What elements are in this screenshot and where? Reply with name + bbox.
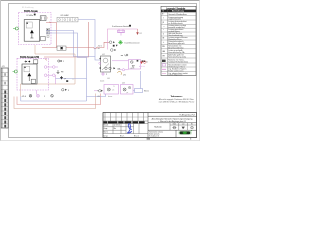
svg-text:Bezeichnung: Bezeichnung	[172, 11, 185, 13]
text column lines	[168, 13, 188, 77]
svg-text:von: von	[182, 124, 185, 126]
svg-text:Durchflussmesser: Durchflussmesser	[125, 41, 140, 44]
bold header band	[103, 121, 144, 123]
red tick at B1.B2 top right	[45, 59, 47, 61]
connector P2 glyph	[118, 29, 125, 36]
small box below B1.B2 body	[31, 79, 35, 83]
red bottom bus	[17, 94, 101, 105]
dashed enclosure B1.B1	[19, 13, 52, 45]
symbols top of B1.B2	[25, 60, 38, 64]
svg-text:Sensorik Wandaufbau: Sensorik Wandaufbau	[168, 13, 187, 16]
pin marks right edge B1.B1	[46, 22, 50, 38]
valve body B1.B2	[22, 64, 37, 84]
svg-text:bn ws: bn ws	[108, 96, 112, 98]
title block	[103, 113, 197, 138]
terminal block X2 top	[57, 15, 78, 22]
svg-text:Norm: Norm	[104, 130, 109, 133]
revision grid columns	[103, 113, 148, 122]
fold mark bottom	[190, 138, 192, 140]
wire label cluster below B1.B2	[22, 94, 54, 98]
svg-text:1: 1	[114, 86, 115, 88]
bottom sensor box X6b	[121, 83, 134, 95]
svg-text:pz: pz	[127, 92, 129, 94]
company logo	[178, 130, 192, 135]
svg-text:-B4: -B4	[122, 83, 125, 85]
pink trace to P2	[108, 29, 138, 50]
svg-text:-X6: -X6	[107, 78, 110, 80]
svg-text:Kuehlwasser Austritt: Kuehlwasser Austritt	[112, 25, 130, 28]
svg-text:extern abgesetzt: extern abgesetzt	[168, 73, 182, 76]
blue bottom bus	[21, 97, 87, 102]
svg-text:Farbe violett extra: Farbe violett extra	[168, 69, 184, 72]
svg-text:Maßstab: Maßstab	[154, 125, 161, 128]
svg-text:gn: gn	[64, 78, 66, 80]
wire blue B1.B1 out A	[46, 31, 101, 61]
terminal strip X1 (left margin)	[1, 66, 8, 128]
svg-text:-X1:4: -X1:4	[22, 96, 27, 98]
svg-text:Anschlussklemme: Anschlussklemme	[168, 46, 183, 49]
signature scribble	[127, 124, 132, 134]
symbols left of X6a	[97, 90, 103, 98]
svg-text:2x1,5: 2x1,5	[100, 81, 104, 83]
red arrow end	[140, 61, 146, 65]
green plug at B1.B2	[13, 70, 18, 73]
svg-text:Gepr.: Gepr.	[104, 127, 109, 130]
svg-text:+ Übersicht der Abgänge plan: + Übersicht der Abgänge plan 01	[158, 120, 186, 123]
diode arrow	[30, 30, 34, 33]
tolerance note block	[159, 96, 195, 103]
svg-text:2: 2	[106, 74, 107, 76]
svg-text:Bearb.: Bearb.	[104, 124, 110, 127]
wire red X2 drop	[44, 22, 89, 57]
small relay box top-right of B1.B1	[40, 16, 48, 21]
svg-text:-W6: -W6	[97, 96, 100, 98]
svg-text:B1 Kuehlung: B1 Kuehlung	[22, 7, 33, 9]
svg-text:K2: K2	[140, 33, 142, 35]
svg-text:-R1: -R1	[123, 74, 126, 76]
riser magenta short	[36, 90, 38, 94]
wire blue B1.B1 out B	[46, 33, 87, 101]
symbols left of X6	[62, 89, 69, 92]
svg-text:1: 1	[63, 61, 64, 63]
header row dark	[161, 10, 196, 13]
svg-text:Mu: Mu	[114, 128, 116, 130]
svg-text:-W4: -W4	[117, 68, 120, 70]
dark symbol pair mid	[58, 60, 64, 63]
magenta wires to X5	[112, 60, 129, 62]
small box below B1.B1 body	[41, 36, 46, 40]
magenta plug circles right of B1.B2	[44, 66, 58, 77]
svg-text:Kennzeichnung 2fb: Kennzeichnung 2fb	[168, 52, 184, 54]
bottom centre tick	[147, 138, 150, 139]
svg-text:—: —	[163, 26, 165, 28]
svg-text:Schaltplan 01: Schaltplan 01	[149, 135, 159, 138]
magenta wire to center	[54, 75, 56, 84]
wire blue X2 right	[78, 20, 95, 57]
green plug at B1.B1	[13, 27, 18, 30]
svg-text:3: 3	[68, 90, 69, 92]
svg-text:12.03.14: 12.03.14	[114, 125, 121, 127]
svg-text:B1.B1 Airgate: B1.B1 Airgate	[24, 10, 39, 13]
svg-text:Urspr.: Urspr.	[104, 134, 109, 137]
lower-left cells	[103, 124, 148, 134]
flow sensor row	[98, 40, 140, 51]
page outer edge	[0, 0, 200, 141]
svg-text:funktion Reihenklemme: funktion Reihenklemme	[168, 61, 188, 64]
svg-text:K1: K1	[146, 62, 148, 64]
center device U2	[99, 54, 111, 72]
svg-text:Toleranzen:: Toleranzen:	[170, 96, 182, 98]
green star	[118, 40, 123, 45]
symbols below U2	[102, 67, 126, 76]
svg-text:1: 1	[47, 17, 48, 19]
dashed enclosure B1.B2	[17, 58, 49, 90]
bottom sensor box X6a	[100, 78, 119, 94]
blue device right	[133, 71, 149, 93]
wire red B1.B1 to bus	[46, 23, 57, 48]
valve body B1.B1	[24, 20, 40, 42]
svg-text:Ebene: Ebene	[144, 91, 149, 93]
tan bottom bus	[14, 94, 96, 109]
svg-text:|‖: |‖	[163, 22, 164, 24]
drawing frame	[9, 4, 197, 138]
right side divider	[147, 113, 149, 138]
magenta wire into X6a	[94, 90, 99, 92]
ground symbol mid	[57, 70, 65, 74]
inline device on red wire	[57, 46, 66, 50]
blue bottom link	[87, 94, 106, 97]
plug box X5	[121, 54, 148, 70]
svg-text:-X1: -X1	[2, 66, 5, 68]
symbol column glyphs	[162, 14, 166, 58]
svg-text:Ers. f.: Ers. f.	[120, 134, 125, 137]
svg-text:1: 1	[44, 96, 45, 98]
svg-text:Ers. d.: Ers. d.	[134, 134, 139, 137]
svg-text:-X2 GHBC: -X2 GHBC	[60, 15, 70, 17]
blue link with plugs	[56, 76, 87, 82]
svg-text:Kennzeichnung extra: Kennzeichnung extra	[168, 56, 187, 59]
wire tan riser net	[21, 45, 76, 97]
svg-text:IC14Dx: IC14Dx	[27, 15, 34, 17]
svg-text:nach DIN ISO 2768-1-m / EN 602: nach DIN ISO 2768-1-m / EN 60204-1 Pkt. …	[159, 100, 195, 103]
wire red main horizontal	[42, 42, 109, 49]
legend table	[161, 6, 196, 76]
